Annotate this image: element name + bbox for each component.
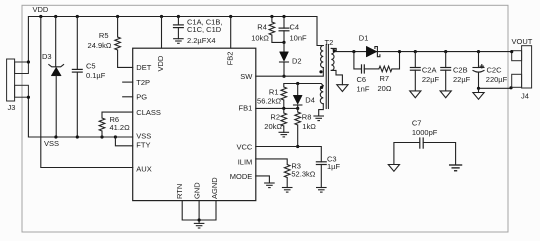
resistor R2 bottom lead bbox=[283, 126, 285, 132]
junction VDD/D3 bbox=[54, 15, 57, 18]
phase dot secondary bbox=[333, 49, 336, 52]
J4 pin 1 bbox=[512, 51, 522, 61]
svg-text:DET: DET bbox=[136, 63, 151, 72]
svg-text:C2C: C2C bbox=[487, 65, 503, 74]
svg-text:FB2: FB2 bbox=[225, 52, 234, 66]
capacitor C2B top lead bbox=[445, 52, 447, 68]
junction VDD pin riser bbox=[160, 15, 163, 18]
resistor R3 bottom lead bbox=[286, 178, 288, 188]
ground below C1 bbox=[173, 39, 184, 44]
junction C5/VSS bbox=[76, 135, 79, 138]
svg-text:MODE: MODE bbox=[230, 172, 253, 181]
J4 pin 2 bbox=[512, 74, 522, 87]
wire MODE from IC to ground bbox=[256, 176, 270, 183]
svg-text:ILIM: ILIM bbox=[238, 157, 253, 166]
wire AUX from VDD rail down and to IC AUX pin bbox=[41, 17, 133, 168]
junction return/C2C bbox=[477, 87, 480, 90]
svg-text:22µF: 22µF bbox=[453, 75, 471, 84]
svg-text:D1: D1 bbox=[359, 34, 369, 43]
diode D3 triangle bbox=[51, 67, 61, 76]
svg-text:GND: GND bbox=[193, 182, 202, 199]
diode D2 anode lead bbox=[283, 42, 285, 51]
ground below R2 bbox=[279, 132, 290, 137]
capacitor C1 plates bbox=[173, 25, 184, 28]
junction GND bus bbox=[198, 218, 201, 221]
svg-text:VSS: VSS bbox=[44, 139, 59, 148]
diode D4 triangle bbox=[293, 95, 302, 104]
svg-text:VDD: VDD bbox=[156, 55, 165, 71]
junction D3/VSS bbox=[54, 135, 57, 138]
diode D2 cathode bar bbox=[280, 61, 289, 63]
resistor R1 bottom lead bbox=[283, 100, 285, 108]
svg-text:J3: J3 bbox=[8, 103, 16, 112]
ground triangle below C2A bbox=[410, 91, 421, 98]
svg-text:R2: R2 bbox=[270, 113, 280, 122]
junction FB1/D4/R8 bbox=[296, 107, 299, 110]
svg-text:D4: D4 bbox=[305, 96, 315, 105]
capacitor C4 top lead bbox=[283, 17, 285, 29]
op IC U1 box bbox=[133, 48, 256, 200]
resistor R4 top lead bbox=[271, 17, 273, 23]
connector J4 body bbox=[522, 46, 532, 88]
capacitor C4 bottom lead bbox=[283, 31, 285, 43]
resistor R5 top lead bbox=[117, 17, 119, 38]
capacitor C2C bottom lead bbox=[478, 72, 480, 88]
svg-text:20kΩ: 20kΩ bbox=[264, 122, 282, 131]
svg-text:FB1: FB1 bbox=[239, 104, 253, 113]
capacitor C2B plates bbox=[440, 68, 451, 71]
svg-text:C7: C7 bbox=[412, 118, 422, 127]
resistor R8 zigzag bbox=[295, 112, 301, 125]
junction output/snubber right bbox=[398, 50, 401, 53]
wire ILIM from IC to R3 bbox=[256, 159, 287, 165]
connector J3 body bbox=[7, 59, 15, 101]
junction output/C2B bbox=[444, 50, 447, 53]
diode D3 cathode bar bbox=[49, 65, 64, 67]
diode D2 triangle bbox=[280, 52, 289, 62]
svg-text:1nF: 1nF bbox=[357, 84, 370, 93]
svg-text:220µF: 220µF bbox=[486, 75, 508, 84]
svg-text:VOUT: VOUT bbox=[512, 37, 533, 46]
svg-text:R7: R7 bbox=[380, 74, 390, 83]
svg-text:FTY: FTY bbox=[136, 140, 150, 149]
capacitor C7 left wire and ground bbox=[394, 143, 420, 165]
ground below C3 bbox=[316, 188, 327, 193]
svg-text:C1C, C1D: C1C, C1D bbox=[187, 25, 222, 34]
wire FB1 from IC bbox=[256, 107, 298, 109]
junction VSS/FTY bbox=[114, 135, 117, 138]
junction J3 pin2 bbox=[27, 96, 30, 99]
svg-text:1000pF: 1000pF bbox=[412, 128, 438, 137]
svg-text:22µF: 22µF bbox=[422, 75, 440, 84]
resistor R4 bottom lead bbox=[272, 35, 284, 42]
svg-text:T2P: T2P bbox=[136, 78, 150, 87]
resistor R6 bottom lead bbox=[101, 131, 103, 137]
capacitor C5 plates bbox=[72, 69, 83, 72]
wire VDD rail from J3 pin1 up and across to T2 primary bbox=[28, 17, 323, 63]
resistor R3 zigzag bbox=[284, 165, 290, 178]
ground below IC GND bbox=[194, 223, 205, 228]
capacitor C2A plates bbox=[410, 68, 421, 71]
svg-text:SW: SW bbox=[240, 72, 253, 81]
phase dot primary bbox=[319, 70, 322, 73]
resistor R6 zigzag bbox=[99, 118, 105, 131]
resistor R1 zigzag bbox=[281, 87, 287, 100]
wire C6 to R7 bbox=[364, 68, 379, 70]
ground triangle below C2B bbox=[440, 91, 451, 98]
ground below bias winding bbox=[313, 116, 324, 121]
svg-text:R5: R5 bbox=[99, 31, 109, 40]
svg-text:1µF: 1µF bbox=[327, 162, 340, 171]
pin RTN lead bbox=[182, 201, 216, 221]
wire snubber left drop bbox=[354, 52, 361, 69]
wire VCC from IC to C3 bbox=[256, 147, 321, 162]
svg-text:2.2µFX4: 2.2µFX4 bbox=[187, 36, 216, 45]
wire output return from C2C to J4 pin2 bbox=[479, 87, 512, 89]
diode D1 triangle bbox=[366, 46, 377, 57]
junction VDD/C4 bbox=[282, 15, 285, 18]
resistor R2 zigzag bbox=[281, 113, 287, 126]
capacitor C4 plates bbox=[279, 28, 290, 31]
svg-text:1kΩ: 1kΩ bbox=[302, 122, 316, 131]
junction VDD/R5 bbox=[116, 15, 119, 18]
capacitor C2A bottom lead bbox=[414, 70, 416, 91]
wire FB2 riser bbox=[230, 17, 232, 49]
ground below C7 right bbox=[449, 165, 462, 171]
svg-text:C2B: C2B bbox=[453, 65, 468, 74]
svg-text:41.2Ω: 41.2Ω bbox=[110, 123, 131, 132]
transformer T2 primary winding bbox=[321, 46, 324, 68]
svg-text:D3: D3 bbox=[42, 52, 52, 61]
capacitor C3 bottom lead bbox=[320, 165, 322, 188]
wire secondary bottom to ground bbox=[331, 70, 342, 84]
capacitor C5 bottom lead bbox=[76, 72, 78, 137]
transformer T2 core bbox=[325, 45, 327, 109]
diode D4 cathode lead bbox=[297, 105, 299, 108]
svg-text:PG: PG bbox=[136, 93, 147, 102]
wire bias feedback from R1 top to T2 bias winding bbox=[284, 84, 324, 88]
diode D3 (TVS) cathode lead bbox=[55, 17, 57, 67]
svg-text:R1: R1 bbox=[269, 88, 279, 97]
wire J3 pin2 riser down to VSS rail bbox=[28, 97, 132, 137]
svg-text:C2A: C2A bbox=[422, 65, 437, 74]
ground triangle below C7 left bbox=[388, 165, 399, 172]
resistor R6 top lead to CLASS pin bbox=[102, 112, 133, 118]
diode D1 schottky cathode bar bbox=[375, 47, 380, 57]
capacitor C1 bank top lead bbox=[177, 17, 179, 25]
J3 pin 1 bbox=[15, 62, 29, 74]
svg-text:VCC: VCC bbox=[236, 143, 252, 152]
wire bias winding bottom to ground bbox=[319, 104, 324, 116]
svg-text:AGND: AGND bbox=[210, 177, 219, 199]
ground triangle below return bbox=[473, 93, 484, 100]
svg-text:D2: D2 bbox=[292, 57, 302, 66]
junction J3 pin1 to VDD riser bbox=[27, 60, 30, 63]
wire FTY bbox=[115, 137, 132, 146]
junction R8/VCC bbox=[296, 145, 299, 148]
wire VDD pin riser bbox=[161, 17, 163, 49]
svg-text:J4: J4 bbox=[521, 91, 529, 100]
resistor R2 top lead bbox=[283, 108, 285, 113]
junction VDD/FB2 bbox=[229, 15, 232, 18]
svg-text:C6: C6 bbox=[357, 75, 367, 84]
C2C plus mark bbox=[480, 65, 483, 68]
svg-text:C4: C4 bbox=[290, 23, 300, 32]
svg-text:RTN: RTN bbox=[175, 184, 184, 199]
junction VDD/C1 bbox=[177, 15, 180, 18]
svg-text:56.2kΩ: 56.2kΩ bbox=[257, 96, 281, 105]
capacitor C2C plates (polarized) bbox=[473, 67, 484, 69]
svg-text:24.9kΩ: 24.9kΩ bbox=[88, 41, 112, 50]
diode D3 anode lead to VSS bbox=[55, 76, 57, 137]
junction return/J4 pin2 bbox=[509, 86, 512, 89]
svg-text:R8: R8 bbox=[302, 113, 312, 122]
svg-text:AUX: AUX bbox=[136, 165, 151, 174]
resistor R7 zigzag bbox=[379, 66, 392, 72]
svg-text:10nF: 10nF bbox=[290, 33, 308, 42]
resistor R5 bottom lead to DET pin bbox=[118, 50, 133, 67]
svg-text:C5: C5 bbox=[86, 62, 96, 71]
junction FB1/R1/R2 bbox=[282, 107, 285, 110]
resistor R4 zigzag bbox=[269, 22, 275, 35]
pin GND lead bbox=[198, 201, 200, 224]
junction VDD/AUX bbox=[39, 15, 42, 18]
svg-text:52.3kΩ: 52.3kΩ bbox=[291, 169, 315, 178]
ground triangle below secondary bbox=[337, 85, 348, 92]
resistor R8 top lead bbox=[297, 108, 299, 112]
ground below R3 bbox=[282, 188, 293, 193]
diode D4 anode lead bbox=[297, 84, 299, 96]
svg-text:10kΩ: 10kΩ bbox=[251, 33, 269, 42]
J3 pin 2 bbox=[15, 85, 29, 97]
resistor R5 zigzag bbox=[115, 37, 121, 50]
capacitor C2B bottom lead bbox=[445, 70, 447, 91]
ground below MODE bbox=[264, 183, 275, 188]
junction VSS/R6 bbox=[100, 135, 103, 138]
junction R4-C4/D2 bbox=[282, 41, 285, 44]
wire secondary top to output bbox=[331, 48, 511, 51]
junction output/C2C bbox=[477, 50, 480, 53]
capacitor C6 plates bbox=[362, 64, 365, 73]
junction bias/D4 bbox=[296, 82, 299, 85]
transformer T2 secondary winding bbox=[331, 48, 334, 70]
wire R7 to output bbox=[392, 52, 400, 69]
junction output/snubber left bbox=[352, 50, 355, 53]
svg-text:VDD: VDD bbox=[33, 5, 49, 14]
capacitor C7 right wire bbox=[423, 143, 455, 166]
svg-text:CLASS: CLASS bbox=[136, 108, 161, 117]
capacitor C5 top lead bbox=[76, 17, 78, 70]
junction output/J4 pin1 bbox=[510, 50, 513, 53]
junction D2/SW bbox=[282, 75, 285, 78]
pin stub T2P bbox=[123, 81, 133, 83]
capacitor C2C top lead bbox=[478, 52, 480, 68]
lead return ground bbox=[478, 88, 480, 92]
capacitor C3 plates bbox=[316, 162, 327, 165]
wire SW from IC to T2 primary bbox=[256, 68, 323, 77]
phase dot bias bbox=[320, 86, 323, 89]
capacitor C2A top lead bbox=[414, 52, 416, 68]
resistor R8 bottom lead to VCC bbox=[297, 125, 299, 147]
pin stub PG bbox=[123, 96, 133, 98]
transformer T2 bias winding bbox=[320, 86, 323, 104]
capacitor C1 bottom lead bbox=[177, 28, 179, 39]
svg-text:20Ω: 20Ω bbox=[378, 84, 392, 93]
svg-text:0.1µF: 0.1µF bbox=[86, 71, 106, 80]
junction VDD/C5 bbox=[76, 15, 79, 18]
diode D2 cathode lead to SW bbox=[283, 62, 285, 76]
diode D4 cathode bar bbox=[294, 104, 302, 106]
junction VDD/R4 bbox=[270, 15, 273, 18]
junction output/C2A bbox=[414, 50, 417, 53]
capacitor C7 plates bbox=[420, 137, 423, 148]
svg-text:R4: R4 bbox=[257, 23, 267, 32]
